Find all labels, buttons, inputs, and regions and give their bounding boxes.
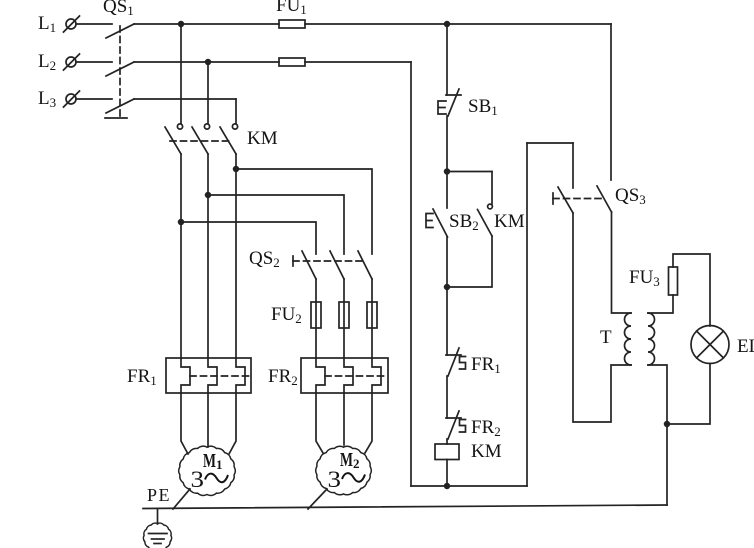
transformer T primary winding (625, 313, 632, 365)
wire L2 to QS1 (76, 61, 112, 63)
switch QS1 pole 2 blade (106, 62, 134, 76)
svg-text:FU3: FU3 (629, 267, 660, 289)
svg-text:KM: KM (247, 128, 278, 149)
wire SB1 to parallel block (446, 116, 448, 172)
wire FR1 to motor M1 leads (181, 393, 236, 454)
wire secondary top to FU3 (648, 295, 673, 313)
contactor KM main pole 3 (220, 124, 238, 154)
coil KM (435, 444, 459, 460)
wire KM coil to bottom rail (446, 460, 448, 487)
wire L3 run (134, 98, 236, 100)
pushbutton SB1 (NC) (438, 89, 461, 116)
node L1 terminal (64, 16, 80, 32)
wire top rail drop to QS3 (610, 24, 612, 180)
wire L1 FU1 to corner (305, 23, 611, 25)
wire L1 drop to KM pole 1 (180, 24, 182, 123)
wire secondary bottom to earth drop (648, 365, 667, 505)
svg-text:FU2: FU2 (271, 304, 302, 326)
wire QS2 pole2 to FU2 (343, 279, 345, 358)
ground earth symbol (143, 509, 171, 548)
node junction parallel bottom (445, 285, 450, 290)
svg-text:QS1: QS1 (103, 0, 134, 18)
node junction coil bottom (445, 484, 450, 489)
svg-text:3: 3 (328, 467, 342, 492)
wire L2 QS1 to FU1 (134, 61, 279, 63)
svg-text:M: M (340, 449, 353, 471)
wire lamp bottom (667, 364, 710, 425)
switch QS1 linkage (105, 26, 127, 118)
wire L1 QS1 to FU1 (134, 23, 279, 25)
wire KM aux top lead (491, 172, 493, 205)
pushbutton SB2 (NO) (426, 209, 448, 237)
wire QS3 pole2 to transformer primary (612, 212, 632, 313)
svg-text:FR2: FR2 (268, 366, 298, 388)
wire KM pole3 down to FR1 (235, 154, 237, 358)
svg-text:KM: KM (471, 441, 502, 462)
node junction branch M2 phase1 (179, 220, 184, 225)
wire control bottom rail (411, 485, 527, 487)
wire FU3 to lamp top (673, 254, 710, 326)
contact KM auxiliary (NO) (478, 204, 493, 236)
svg-text:SB2: SB2 (449, 211, 479, 233)
node L3 terminal (64, 91, 80, 107)
svg-text:L1: L1 (38, 13, 56, 35)
wire lighting branch riser (526, 143, 528, 486)
fuse FU3 (669, 267, 678, 295)
fuse FU1 element a (279, 20, 305, 28)
svg-text:PE: PE (147, 485, 171, 505)
wire top rail drop to SB1 (446, 24, 448, 95)
wire branch phase2 to QS2 (208, 195, 344, 254)
wire QS2 pole3 to FU2 (371, 279, 373, 358)
svg-text:EL: EL (737, 336, 754, 357)
wire QS3 pole1 to transformer return (573, 213, 631, 422)
wire L2 control drop (410, 62, 412, 486)
label M1 tilde (205, 474, 228, 483)
svg-text:SB1: SB1 (468, 96, 498, 118)
wire L1 to QS1 (76, 23, 112, 25)
switch QS2 handle (292, 256, 294, 266)
contactor KM main pole 1 (165, 124, 183, 154)
svg-text:KM: KM (494, 211, 525, 232)
node L2 terminal (64, 54, 80, 70)
wire PE rail (143, 505, 667, 509)
wire FR2 contact to KM coil (446, 439, 448, 444)
switch QS3 linkage (553, 198, 604, 200)
svg-text:2: 2 (353, 456, 360, 471)
node junction lamp return (665, 422, 670, 427)
wire parallel top branch (447, 171, 492, 173)
contactor KM main pole 2 (192, 124, 210, 154)
switch QS3 pole 1 blade (558, 187, 573, 213)
wire SB2 bottom lead (446, 237, 448, 287)
node junction branch M2 phase2 (206, 193, 211, 198)
switch QS1 pole 1 blade (106, 24, 134, 38)
contactor KM linkage (170, 140, 231, 142)
wire L2 FU1 to control drop (305, 61, 411, 63)
svg-text:FU1: FU1 (276, 0, 307, 17)
wire L2 drop to KM pole 2 (207, 62, 209, 123)
wire FR2 to motor M2 leads (316, 393, 372, 453)
wire lighting branch bridge (527, 142, 573, 144)
fuse FU1 element b (279, 58, 305, 66)
node junction L2 branch (206, 60, 211, 65)
thermal relay FR2 heater box (301, 358, 388, 393)
switch QS1 pole 3 blade (106, 99, 134, 113)
switch QS3 pole 2 blade (597, 186, 612, 212)
wire FR1 contact to FR2 contact (446, 376, 448, 418)
svg-text:L3: L3 (38, 88, 56, 110)
node junction branch M2 phase3 (234, 167, 239, 172)
svg-text:QS3: QS3 (615, 185, 646, 207)
wire SB2 top lead (446, 172, 448, 209)
wire branch phase1 to QS2 (181, 222, 316, 254)
svg-text:M: M (203, 450, 216, 472)
wire parallel block to FR1 contact (446, 287, 448, 355)
switch QS2 pole 2 blade (330, 251, 344, 279)
switch QS2 pole 3 blade (358, 251, 372, 279)
node junction top rail to SB1 (445, 22, 450, 27)
wire L3 drop to KM pole 3 (235, 99, 237, 123)
switch QS2 linkage (293, 260, 362, 262)
svg-text:FR1: FR1 (127, 366, 157, 388)
fuse FU2 element c (367, 302, 377, 328)
motor M2 (316, 446, 371, 495)
transformer T secondary winding (648, 313, 655, 365)
wire KM aux bottom lead (447, 236, 492, 287)
wire KM pole1 down to FR1 (180, 154, 182, 358)
wire QS2 pole1 to FU2 (315, 279, 317, 358)
svg-text:T: T (600, 327, 612, 348)
svg-text:FR1: FR1 (471, 354, 501, 376)
wire QS3 pole1 top lead (572, 143, 574, 188)
switch QS3 handle (552, 193, 554, 204)
fuse FU2 element a (311, 302, 321, 328)
label M2 tilde (342, 473, 365, 482)
wire L3 to QS1 (76, 98, 112, 100)
wire KM pole2 down to FR1 (207, 154, 209, 358)
svg-text:QS2: QS2 (249, 248, 280, 270)
wire PE diagonal from M2 (308, 489, 327, 509)
lamp EL (691, 326, 729, 364)
node junction L1 branch (179, 22, 184, 27)
node junction parallel top (445, 169, 450, 174)
thermal relay FR1 heater box (166, 358, 251, 393)
svg-text:FR2: FR2 (471, 417, 501, 439)
svg-text:3: 3 (191, 467, 205, 492)
svg-text:1: 1 (216, 457, 223, 472)
svg-text:L2: L2 (38, 51, 56, 73)
contact FR2 (NC thermal) (446, 411, 466, 439)
contact FR1 (NC thermal) (446, 348, 466, 376)
fuse FU2 element b (339, 302, 349, 328)
switch QS2 pole 1 blade (302, 251, 316, 279)
motor M1 (179, 446, 235, 495)
wire PE diagonal from M1 (173, 489, 190, 509)
wire branch phase3 to QS2 (236, 169, 372, 254)
